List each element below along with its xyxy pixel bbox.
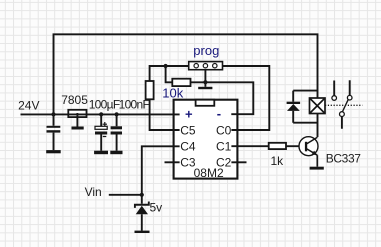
svg-text:10k: 10k xyxy=(162,86,183,101)
svg-text:C4: C4 xyxy=(180,140,196,154)
svg-text:C1: C1 xyxy=(216,140,232,154)
svg-text:prog: prog xyxy=(193,43,219,58)
svg-text:7805: 7805 xyxy=(61,93,88,107)
svg-text:Vin: Vin xyxy=(85,185,102,199)
svg-text:5v: 5v xyxy=(150,200,163,214)
svg-text:BC337: BC337 xyxy=(326,151,361,165)
svg-text:1k: 1k xyxy=(271,154,285,168)
svg-text:100nF: 100nF xyxy=(119,98,150,112)
svg-text:24V: 24V xyxy=(18,99,39,113)
svg-text:-: - xyxy=(217,106,221,121)
svg-text:C5: C5 xyxy=(180,123,196,137)
svg-text:08M2: 08M2 xyxy=(194,166,224,180)
svg-text:C0: C0 xyxy=(216,123,232,137)
svg-text:+: + xyxy=(185,106,193,121)
svg-text:100µF: 100µF xyxy=(89,98,120,112)
